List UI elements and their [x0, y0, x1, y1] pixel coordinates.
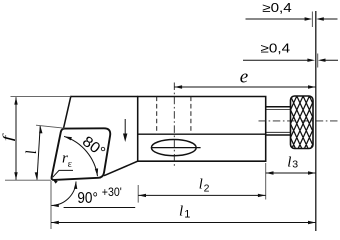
dimension l2 — [138, 194, 266, 196]
dimension l (insert edge) — [36, 125, 65, 128]
adjusting stud with thread lines — [266, 107, 291, 135]
clamping force arrow — [124, 119, 126, 137]
svg-text:≥0,4: ≥0,4 — [261, 42, 291, 56]
svg-text:3: 3 — [292, 159, 298, 171]
80-deg nose angle arc — [64, 136, 97, 176]
svg-text:l: l — [179, 204, 183, 220]
hidden hole lines (dashed) — [157, 97, 191, 135]
insert (80-deg rhombic, rounded corners) — [52, 128, 111, 180]
svg-text:1: 1 — [184, 208, 190, 220]
svg-text:90°: 90° — [77, 190, 98, 207]
svg-text:l: l — [287, 154, 291, 170]
clearance callout 2 (>=0,4) — [317, 54, 319, 68]
90-deg approach angle arc — [51, 182, 76, 206]
dimension f — [11, 96, 71, 98]
extension line from nose — [50, 181, 52, 229]
horizontal stud axis centerline — [259, 120, 339, 122]
svg-text:+30': +30' — [102, 187, 122, 199]
svg-text:l: l — [199, 177, 203, 193]
vertical screw axis centerline — [173, 83, 175, 169]
dimension l3 — [266, 172, 316, 174]
clamp screw ellipse (slot head) — [151, 140, 196, 156]
dimension e — [174, 86, 315, 88]
svg-text:≥0,4: ≥0,4 — [262, 1, 292, 15]
datum face line (right reference) — [315, 11, 317, 231]
dimension l1 — [51, 222, 316, 224]
svg-text:e: e — [240, 66, 248, 87]
90deg+30min label with shelf — [64, 207, 136, 209]
svg-text:ε: ε — [68, 159, 72, 170]
tool body outline (head + shank) — [64, 97, 266, 176]
extension line from head step — [137, 185, 139, 203]
extension line from shank end — [265, 163, 267, 200]
clearance callout 1 (>=0,4) — [311, 12, 313, 28]
screw slot line — [151, 147, 200, 149]
svg-text:2: 2 — [204, 182, 210, 194]
